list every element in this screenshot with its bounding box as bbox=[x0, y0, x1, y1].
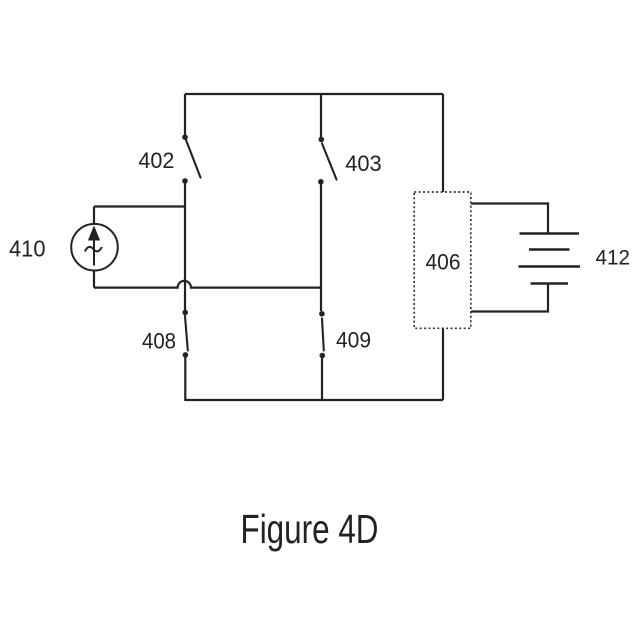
svg-text:402: 402 bbox=[138, 148, 174, 173]
svg-text:Figure 4D: Figure 4D bbox=[241, 506, 379, 552]
svg-text:412: 412 bbox=[596, 247, 631, 270]
svg-text:403: 403 bbox=[345, 151, 382, 176]
svg-text:410: 410 bbox=[9, 236, 46, 262]
svg-text:408: 408 bbox=[142, 329, 176, 354]
svg-text:406: 406 bbox=[426, 250, 461, 275]
svg-text:409: 409 bbox=[336, 328, 371, 353]
